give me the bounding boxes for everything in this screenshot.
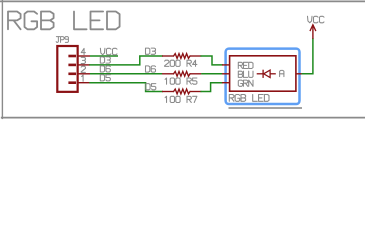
wire from R7 up to LED GRN pin — [201, 83, 222, 92]
pin 1 of JP9 — [68, 81, 76, 84]
pin name RED — [238, 62, 242, 68]
net label D5 (mid) — [146, 84, 150, 90]
selection highlight box shadow — [229, 107, 303, 109]
label VCC (supply) — [308, 16, 313, 23]
pin number 4 — [81, 48, 85, 54]
diode symbol inside LED — [257, 73, 263, 75]
value label 100 R5 — [165, 78, 166, 84]
net label D6 (at connector) — [100, 66, 104, 72]
schematic sheet — [0, 0, 365, 120]
net label D6 (mid) — [146, 66, 150, 72]
wire from R4 to LED RED pin — [201, 56, 222, 65]
net label D3 (at connector) — [100, 57, 104, 63]
label JP9 — [56, 36, 59, 38]
resistor R4 — [162, 55, 174, 57]
pin number 1 — [82, 75, 83, 81]
title text RGB LED — [8, 12, 21, 30]
wire net VCC — [90, 55, 118, 57]
LED body box — [230, 56, 296, 91]
pin number 2 — [81, 66, 85, 72]
value label 200 R4 — [165, 60, 169, 66]
value label 100 R7 — [165, 96, 166, 102]
LED pin GRN stub — [222, 82, 230, 84]
pin 3 of JP9 — [68, 64, 76, 67]
net label D3 (on raised segment) — [146, 48, 150, 54]
pin name A — [280, 70, 284, 76]
LED pin BLU stub — [222, 73, 230, 75]
connector JP9 body — [57, 46, 77, 92]
pin 2 of JP9 — [68, 73, 76, 76]
label RGB LED (part name) — [229, 95, 234, 102]
LED pin A stub — [296, 73, 302, 75]
pin 4 of JP9 — [68, 55, 76, 58]
selection highlight box (blue) — [226, 49, 300, 104]
frame border — [0, 0, 365, 2]
pin name BLU — [238, 71, 242, 77]
pin name GRN — [238, 80, 242, 86]
pin number 3 — [81, 57, 85, 60]
wire net D5 (pin 1, drop to R7 row) — [90, 83, 162, 92]
resistor R5 — [162, 73, 174, 75]
resistor R7 — [162, 91, 174, 93]
wire from R5 to LED BLU pin — [201, 73, 222, 75]
wire from A pin up to VCC — [302, 39, 313, 74]
net label VCC — [100, 48, 105, 55]
VCC supply symbol arrow — [312, 25, 314, 39]
LED pin RED stub — [222, 64, 230, 66]
wire net D3 (pin 3 to riser) — [90, 56, 162, 65]
net label D5 (at connector) — [100, 75, 104, 81]
wire net D6 (straight) — [90, 73, 162, 75]
